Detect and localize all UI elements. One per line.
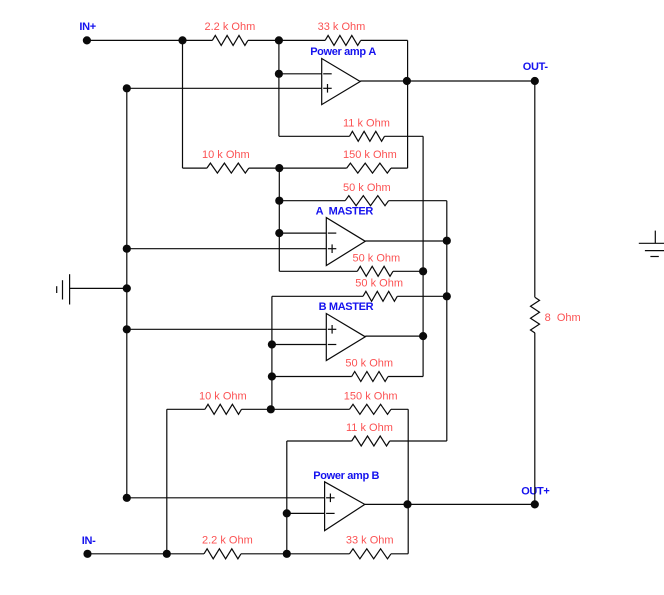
junction output-B / feedback column: [403, 500, 411, 508]
resistor 150 k Ohm (feedback A, from output-A): [347, 163, 391, 173]
junction minus input B MASTER: [268, 340, 276, 348]
svg-text:11 k Ohm: 11 k Ohm: [343, 117, 390, 129]
wire vertical: 10k-B corner down to IN- row: [166, 409, 168, 554]
wire 10k-B right to node: [242, 408, 271, 410]
junction ground bus top / plus-A row: [123, 84, 131, 92]
resistor 2.2 k Ohm (input, power amp A): [212, 35, 248, 45]
svg-text:33 k Ohm: 33 k Ohm: [318, 21, 366, 33]
junction 10k-B/150k-B on B minus column: [267, 405, 275, 413]
wire IN+ row: IN+ to 2.2k left: [87, 39, 212, 41]
resistor 10 k Ohm (bottom): [205, 404, 242, 414]
wire vertical: 33k corner down through output-A to 150k-A corner: [407, 40, 409, 168]
wire 150k-A right to corner: [391, 167, 408, 169]
svg-text:A MASTER: A MASTER: [316, 206, 374, 218]
svg-text:8 Ohm: 8 Ohm: [545, 312, 581, 324]
wire 50k-B1 left from corner: [272, 295, 363, 297]
resistor 11 k Ohm (power amp A to B MASTER out): [350, 131, 385, 141]
junction ground bus / plus B MASTER: [123, 325, 131, 333]
wire 11k-A left: [279, 135, 350, 137]
wire plus input row power amp B: [127, 497, 325, 499]
wire 50k-A2 right: [393, 270, 423, 272]
wire minus input row power amp B: [287, 512, 325, 514]
wire plus input row power amp A (from ground bus): [127, 87, 322, 89]
wire vertical B-MASTER minus column x=272: [271, 296, 273, 409]
svg-text:2.2 k Ohm: 2.2 k Ohm: [202, 535, 253, 547]
wire output row B MASTER: [365, 335, 423, 337]
wire junction to 33k left: [279, 39, 325, 41]
wire OUT- down to 8 Ohm load: [534, 81, 536, 297]
svg-text:Power amp B: Power amp B: [313, 470, 379, 482]
svg-text:10 k Ohm: 10 k Ohm: [202, 149, 250, 161]
junction ground bus / plus A MASTER: [123, 245, 131, 253]
wire vertical A-output column x=447: [446, 201, 448, 441]
junction ground bus bottom / plus-B row: [123, 494, 131, 502]
ground (right, earth symbol): [639, 231, 664, 257]
wire vertical A-MASTER minus column x=279: [278, 168, 280, 271]
junction IN+ row / 10k-A branch: [178, 36, 186, 44]
svg-text:10 k Ohm: 10 k Ohm: [199, 391, 247, 403]
junction 50k-B1 on x=447 column: [443, 292, 451, 300]
op-amp A MASTER (minus on top): [326, 218, 365, 266]
resistor 10 k Ohm (top): [207, 163, 249, 173]
wire 150k-B right to corner: [391, 408, 408, 410]
junction B MASTER output on x=423 column: [419, 332, 427, 340]
wire output row power amp B to OUT+: [365, 503, 535, 505]
wire 50k-A1 left: [279, 200, 345, 202]
junction 50k-A2 on x=423 column: [419, 267, 427, 275]
junction 2.2k-B/33k-B/minus-B node: [283, 550, 291, 558]
wire 150k-B left: [271, 408, 350, 410]
junction ground on bus: [123, 284, 131, 292]
svg-text:2.2 k Ohm: 2.2 k Ohm: [205, 21, 256, 33]
wire 11k-B right to corner: [390, 440, 447, 442]
wire plus input row B MASTER: [127, 328, 326, 330]
svg-text:B MASTER: B MASTER: [319, 301, 374, 313]
junction 50k-A1 left on minus column: [275, 197, 283, 205]
svg-text:150 k Ohm: 150 k Ohm: [343, 149, 397, 161]
wire 33k-B left: [287, 553, 350, 555]
wire 10k-A right to node: [249, 167, 279, 169]
svg-text:33 k Ohm: 33 k Ohm: [346, 535, 394, 547]
op-amp Power amp B (plus on top): [325, 482, 365, 531]
op-amp Power amp A (minus on top): [322, 59, 361, 105]
wire 11k-A right to corner: [385, 135, 424, 137]
resistor 150 k Ohm (feedback B, from output-B): [350, 404, 392, 414]
wire 10k-B left from corner: [167, 408, 205, 410]
wire output row A MASTER: [365, 240, 447, 242]
svg-text:IN-: IN-: [82, 535, 96, 547]
svg-text:150 k Ohm: 150 k Ohm: [344, 391, 398, 403]
resistor 50 k Ohm (A minus to B MASTER out): [357, 266, 393, 276]
wire 50k-A2 left: [279, 270, 357, 272]
junction A MASTER output on x=447 column: [443, 237, 451, 245]
junction IN- row / 10k-B branch: [163, 550, 171, 558]
wire minus input row power amp A: [279, 73, 322, 75]
svg-text:50 k Ohm: 50 k Ohm: [343, 182, 391, 194]
wire minus input row B MASTER: [272, 344, 326, 346]
wire 11k-B left from corner: [287, 440, 352, 442]
wire output row power amp A to OUT-: [360, 80, 535, 82]
resistor 8 Ohm (bridge load, vertical): [531, 297, 540, 333]
wire vertical: IN+ junction down to 10k-A left corner: [182, 40, 184, 168]
op-amp B MASTER (plus on top): [326, 314, 365, 361]
svg-text:IN+: IN+: [79, 21, 95, 33]
wire vertical cross-coupling column x=423: [422, 136, 424, 376]
svg-text:50 k Ohm: 50 k Ohm: [353, 253, 401, 265]
junction 50k-B2 left on minus column: [268, 372, 276, 380]
wire 33k-B right to corner: [391, 553, 408, 555]
resistor 50 k Ohm (B minus to A MASTER out): [363, 291, 397, 301]
wire 2.2k-B right to junction: [241, 553, 287, 555]
ground (left, earth symbol pointing left): [57, 274, 70, 304]
svg-text:50 k Ohm: 50 k Ohm: [355, 278, 403, 290]
resistor 11 k Ohm (power amp B to A MASTER out): [352, 436, 390, 446]
resistor 33 k Ohm (feedback, power amp B): [350, 549, 392, 559]
wire 50k-B1 right: [397, 295, 447, 297]
wire vertical: 150k-B corner down through output-B to 33k-B corner: [407, 409, 409, 554]
wire 50k-A1 right to corner: [389, 200, 447, 202]
resistor 2.2 k Ohm (input, power amp B): [204, 549, 241, 559]
svg-text:50 k Ohm: 50 k Ohm: [345, 358, 393, 370]
resistor 50 k Ohm (A MASTER feedback): [345, 196, 388, 206]
wire 50k-B2 left: [272, 376, 352, 378]
terminal dot IN-: [83, 550, 91, 558]
terminal dot IN+: [83, 36, 91, 44]
svg-text:OUT-: OUT-: [523, 61, 549, 73]
svg-text:Power amp A: Power amp A: [310, 46, 376, 58]
wire minus input row A MASTER: [279, 232, 326, 234]
terminal dot OUT-: [531, 77, 539, 85]
wire 10k-A left: [183, 167, 207, 169]
wire plus input row A MASTER: [127, 248, 326, 250]
resistor 33 k Ohm (feedback, power amp A): [325, 35, 361, 45]
junction output-A / feedback column: [403, 77, 411, 85]
svg-text:11 k Ohm: 11 k Ohm: [346, 422, 393, 434]
junction minus input power amp A: [275, 70, 283, 78]
wire 33k right to corner: [361, 39, 408, 41]
resistor 50 k Ohm (B MASTER feedback): [352, 372, 388, 382]
wire 2.2k right to junction: [248, 39, 279, 41]
terminal dot OUT+: [531, 500, 539, 508]
wire ground to bus: [70, 287, 127, 289]
wire IN- row left: [88, 553, 205, 555]
junction 10k-A/150k-A/A-MASTER minus column: [275, 164, 283, 172]
junction minus input power amp B: [283, 509, 291, 517]
wire 50k-B2 right to corner: [388, 376, 423, 378]
junction 2.2k/33k/minus-A node: [275, 36, 283, 44]
wire vertical: minus-A node down to 11k-A row: [278, 40, 280, 136]
wire 8 Ohm down to OUT+: [534, 333, 536, 504]
wire vertical ground bus x=127: [126, 88, 128, 498]
junction minus input A MASTER: [275, 229, 283, 237]
wire 150k-A left: [279, 167, 346, 169]
wire vertical power-amp-B minus column x=287: [286, 441, 288, 554]
